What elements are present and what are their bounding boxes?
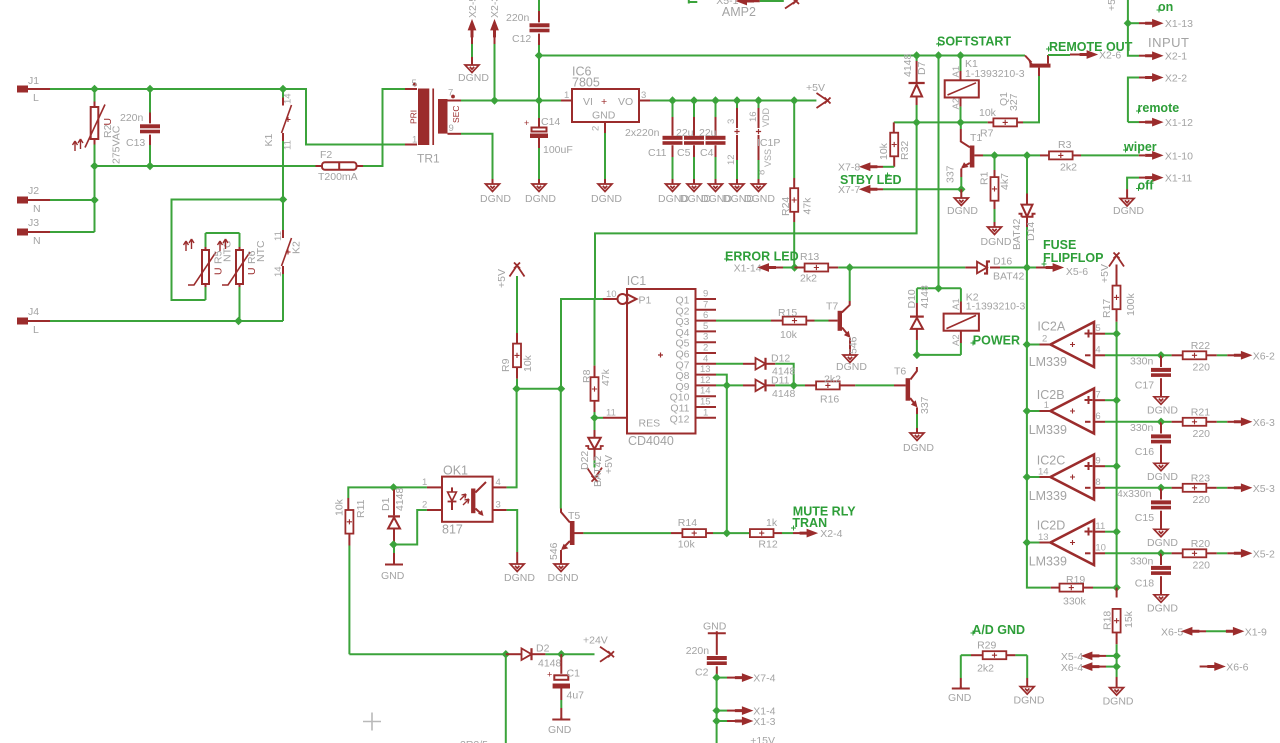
svg-text:327: 327	[1008, 93, 1020, 111]
wire mains N lower rail	[95, 165, 316, 167]
svg-text:T1: T1	[970, 132, 982, 144]
resistor R17 100k	[1101, 265, 1137, 334]
svg-text:C18: C18	[1135, 578, 1154, 590]
svg-text:R1: R1	[979, 171, 991, 185]
svg-text:5: 5	[703, 321, 708, 332]
svg-text:TR1: TR1	[417, 152, 440, 166]
svg-text:R23: R23	[1191, 473, 1210, 485]
capacitor C15 4x330n	[1117, 484, 1171, 530]
svg-text:VO: VO	[618, 96, 633, 108]
svg-text:3: 3	[703, 332, 708, 343]
svg-text:16: 16	[748, 111, 759, 122]
svg-text:off: off	[1138, 179, 1155, 193]
svg-text:7: 7	[448, 88, 453, 99]
svg-text:1: 1	[564, 90, 569, 101]
svg-text:2k2: 2k2	[1060, 162, 1077, 174]
svg-text:7: 7	[1095, 390, 1100, 401]
svg-text:4: 4	[496, 477, 501, 488]
svg-text:D16: D16	[993, 256, 1012, 268]
svg-text:RES: RES	[639, 418, 661, 430]
svg-text:2k2: 2k2	[977, 663, 994, 675]
svg-text:U: U	[246, 267, 258, 275]
svg-text:330n: 330n	[1130, 556, 1154, 568]
wire error row to D16	[850, 267, 966, 269]
diode D1 4148	[380, 487, 406, 544]
svg-text:C16: C16	[1135, 446, 1154, 458]
ground DGND (C14)	[532, 184, 546, 192]
svg-text:K1: K1	[263, 133, 275, 146]
svg-text:R21: R21	[1191, 407, 1210, 419]
svg-text:10k: 10k	[979, 107, 997, 119]
svg-text:X6-4: X6-4	[1061, 662, 1083, 674]
svg-text:C5: C5	[677, 147, 691, 159]
supply +24V arrow	[600, 647, 614, 662]
svg-text:X1-10: X1-10	[1165, 151, 1193, 163]
capacitor C14 100uF	[524, 101, 573, 185]
wire R11 to D2 row	[349, 653, 505, 655]
pin X5-3	[1234, 483, 1275, 495]
svg-text:VDD: VDD	[761, 107, 771, 127]
svg-text:4k7: 4k7	[999, 173, 1011, 190]
svg-text:10k: 10k	[522, 354, 534, 372]
capacitor C12 220n	[506, 0, 550, 101]
svg-text:11: 11	[283, 140, 294, 150]
svg-text:X2-4: X2-4	[820, 528, 842, 540]
svg-text:+24V: +24V	[583, 635, 608, 647]
svg-text:C1: C1	[567, 668, 581, 680]
pin X2-4	[793, 528, 843, 540]
svg-text:R13: R13	[800, 251, 819, 263]
capacitor C4	[706, 101, 726, 185]
svg-text:X5-6: X5-6	[1066, 266, 1088, 278]
svg-text:NTC: NTC	[255, 240, 267, 262]
svg-text:C11: C11	[648, 147, 667, 159]
resistor R7 10k	[979, 76, 1039, 140]
pin X5-4	[1061, 651, 1117, 663]
svg-text:D10: D10	[906, 289, 918, 308]
resistor R16 2k2	[794, 374, 906, 406]
svg-text:12: 12	[700, 375, 711, 386]
pin X7-7	[838, 184, 961, 196]
resistor R3 2k2	[1040, 139, 1139, 174]
pin X5-1 (cut)	[716, 0, 799, 9]
capacitor C5	[684, 101, 704, 185]
capacitor C1 4u7	[547, 654, 584, 719]
svg-text:T6: T6	[894, 366, 906, 378]
svg-text:IC2A: IC2A	[1037, 320, 1065, 334]
wire wiper row	[995, 154, 1041, 156]
svg-text:FUSE: FUSE	[1043, 238, 1076, 252]
fuse F2 T200mA	[316, 89, 406, 183]
resistor R29 2k2	[961, 640, 1027, 675]
IC IC1 CD4040	[603, 274, 716, 448]
svg-text:BAT42: BAT42	[1011, 219, 1023, 250]
wire NTC loop	[172, 200, 284, 301]
svg-text:GND: GND	[948, 692, 972, 704]
svg-text:+5V: +5V	[496, 269, 508, 288]
resistor R23 220	[1161, 473, 1235, 507]
svg-text:DGND: DGND	[548, 572, 579, 584]
svg-text:on: on	[1158, 0, 1173, 14]
svg-text:4148: 4148	[902, 53, 914, 77]
svg-text:7805: 7805	[572, 76, 600, 90]
svg-text:1-1393210-3: 1-1393210-3	[966, 301, 1026, 313]
svg-text:X1-13: X1-13	[1165, 18, 1193, 30]
svg-text:J1: J1	[28, 75, 39, 87]
power pins IC2P (3/12)	[726, 101, 740, 185]
svg-text:DGND: DGND	[836, 361, 867, 373]
resistor R20 220	[1161, 538, 1235, 572]
svg-text:DGND: DGND	[981, 236, 1012, 248]
ground DGND (OK1)	[510, 564, 524, 572]
svg-text:9: 9	[703, 289, 708, 300]
ground GND (D1)	[393, 545, 395, 554]
svg-text:X6-2: X6-2	[1253, 350, 1275, 362]
svg-text:546: 546	[548, 542, 560, 560]
svg-text:10k: 10k	[780, 329, 798, 341]
svg-text:220n: 220n	[686, 645, 710, 657]
wire D1 to OK1 pin2	[394, 510, 427, 545]
svg-text:IC2D: IC2D	[1037, 519, 1065, 533]
svg-text:J3: J3	[28, 217, 39, 229]
svg-text:DGND: DGND	[1113, 205, 1144, 217]
diode D16 BAT42	[965, 256, 1027, 283]
pin X7-8	[838, 162, 877, 174]
op-amp IC2B LM339	[1027, 388, 1161, 437]
svg-text:220n: 220n	[120, 112, 144, 124]
pin X6-5 to X1-9	[1161, 627, 1267, 639]
ground DGND (T5)	[560, 560, 562, 564]
svg-text:A1: A1	[951, 298, 962, 310]
svg-text:U: U	[102, 118, 114, 126]
svg-text:X1-3: X1-3	[753, 716, 775, 728]
svg-text:275VAC: 275VAC	[111, 125, 123, 164]
supply +5V arrow (R17)	[1109, 253, 1124, 267]
diode D22 BAT42 to +5V	[579, 418, 615, 487]
svg-text:X1-9: X1-9	[1245, 627, 1267, 639]
ground GND (C2)	[708, 631, 726, 633]
pin X2-6	[1048, 50, 1121, 62]
node C12 to softstart wire	[535, 51, 543, 59]
svg-text:A2: A2	[951, 334, 962, 346]
svg-text:R24: R24	[780, 197, 792, 216]
svg-text:+: +	[524, 118, 529, 128]
wire J4 to K2	[50, 320, 283, 322]
supply +5V arrow	[817, 93, 831, 108]
svg-text:PRI: PRI	[409, 110, 419, 124]
ground GND (R29)	[960, 655, 962, 678]
svg-text:4148: 4148	[919, 285, 931, 309]
pin X1-4	[717, 706, 776, 718]
svg-text:POWER: POWER	[973, 334, 1020, 348]
svg-text:4: 4	[1095, 345, 1100, 356]
capacitor C2 220n	[686, 633, 727, 678]
svg-text:6: 6	[703, 310, 708, 321]
svg-text:wiper: wiper	[1123, 140, 1157, 154]
relay contact K1	[263, 89, 294, 200]
svg-text:220: 220	[1193, 362, 1211, 374]
svg-text:2k2: 2k2	[800, 273, 817, 285]
ground DGND (off)	[1126, 189, 1128, 198]
svg-text:1k: 1k	[766, 517, 778, 529]
svg-text:+5V: +5V	[806, 82, 825, 94]
svg-text:4148: 4148	[772, 388, 796, 400]
svg-text:C4: C4	[700, 147, 714, 159]
ground DGND (T1)	[960, 189, 962, 198]
capacitor C16 330n	[1130, 418, 1171, 464]
svg-text:ERROR LED: ERROR LED	[725, 250, 799, 264]
svg-text:5: 5	[412, 78, 417, 89]
resistor R21 220	[1161, 407, 1235, 441]
svg-text:T7: T7	[826, 301, 838, 313]
wire softstart vertical to K2	[938, 56, 940, 289]
svg-text:LM339: LM339	[1029, 489, 1067, 503]
svg-text:J2: J2	[28, 185, 39, 197]
svg-text:Q12: Q12	[670, 413, 690, 425]
pin X6-2	[1234, 350, 1275, 362]
ground DGND (IC6)	[598, 184, 612, 192]
svg-text:337: 337	[945, 165, 957, 183]
wire R7 row	[894, 121, 988, 123]
resistor R1 4k7	[979, 155, 1012, 227]
svg-text:C2: C2	[695, 667, 709, 679]
svg-text:X2-6: X2-6	[1099, 50, 1121, 62]
connector J1 (L)	[17, 75, 50, 104]
svg-text:4148: 4148	[538, 658, 562, 670]
svg-text:11: 11	[273, 231, 284, 241]
svg-text:SOFTSTART: SOFTSTART	[937, 35, 1011, 49]
svg-text:5: 5	[1095, 323, 1100, 334]
svg-text:X7-8: X7-8	[838, 162, 860, 174]
svg-text:817: 817	[442, 523, 463, 537]
svg-text:OK1: OK1	[443, 464, 468, 478]
pin X6-4	[1061, 662, 1117, 674]
svg-text:2x220n: 2x220n	[625, 127, 660, 139]
svg-text:GND: GND	[703, 621, 727, 633]
wire R9 to IC1 clock	[517, 299, 603, 389]
svg-text:8: 8	[1095, 477, 1100, 488]
svg-text:GND: GND	[592, 110, 616, 122]
svg-text:GND: GND	[548, 724, 572, 736]
svg-text:R17: R17	[1101, 299, 1113, 318]
svg-text:X6-3: X6-3	[1253, 417, 1275, 429]
svg-text:T200mA: T200mA	[318, 171, 358, 183]
ground DGND (TR1)	[486, 184, 500, 192]
svg-text:K2: K2	[291, 241, 303, 254]
svg-text:D1: D1	[380, 497, 392, 511]
svg-text:A1: A1	[951, 66, 962, 78]
pin X1-10	[1139, 151, 1193, 163]
diode D12 4148	[716, 353, 796, 386]
diode D14 BAT42	[1011, 155, 1037, 267]
svg-text:DGND: DGND	[525, 193, 556, 205]
svg-text:A2: A2	[951, 98, 962, 110]
svg-text:2: 2	[591, 126, 602, 131]
wire OK1 pin3 to ground	[507, 510, 518, 552]
svg-text:14: 14	[700, 386, 711, 397]
svg-text:BAT42: BAT42	[993, 271, 1024, 283]
svg-text:220n: 220n	[506, 12, 530, 24]
ground DGND (R1)	[988, 227, 1002, 235]
svg-text:220: 220	[1193, 494, 1211, 506]
svg-text:IC2C: IC2C	[1037, 454, 1065, 468]
wire +5V rail	[650, 100, 816, 102]
pin X2-3 arrow up	[489, 0, 501, 101]
svg-text:R19: R19	[1066, 574, 1085, 586]
pin X1-11	[1127, 173, 1192, 190]
svg-text:R29: R29	[977, 640, 996, 652]
pin X2-1	[1128, 23, 1187, 63]
svg-text:+5V: +5V	[1106, 0, 1118, 11]
resistor R15 10k	[716, 307, 829, 341]
diode D10 4148	[906, 285, 931, 355]
pin X6-3	[1234, 417, 1275, 429]
wire TR1 sec top to regulator	[461, 100, 561, 102]
svg-text:9: 9	[449, 123, 454, 134]
svg-text:1-1393210-3: 1-1393210-3	[965, 68, 1025, 80]
varistor R2 275VAC	[73, 89, 123, 166]
svg-text:4: 4	[703, 353, 708, 364]
pin X6-6	[1200, 662, 1249, 674]
svg-text:11: 11	[1095, 521, 1105, 532]
svg-text:+5V: +5V	[1099, 264, 1111, 283]
wire OK1 pin4 to R9	[507, 389, 517, 488]
svg-text:X2-2: X2-2	[1165, 73, 1187, 85]
thermistor R6 NTC	[218, 233, 268, 321]
svg-text:220: 220	[1193, 428, 1211, 440]
wire comparator plus rail	[1116, 334, 1118, 588]
svg-text:47k: 47k	[802, 197, 814, 215]
supply +5V arrow (R9)	[510, 263, 525, 277]
op-amp IC2C LM339	[1027, 454, 1161, 504]
svg-text:LM339: LM339	[1029, 423, 1067, 437]
svg-text:22u: 22u	[699, 127, 717, 139]
svg-text:DGND: DGND	[1147, 471, 1178, 483]
svg-text:3: 3	[496, 500, 501, 511]
resistor R19 330k	[1051, 574, 1117, 608]
capacitor C18 330n	[1130, 549, 1171, 595]
svg-text:R11: R11	[355, 499, 367, 518]
svg-text:DGND: DGND	[458, 72, 489, 84]
svg-text:R18: R18	[1102, 611, 1114, 630]
voltage regulator IC6 7805	[561, 65, 650, 134]
resistor R11 10k	[334, 498, 368, 654]
pin X2-2	[1128, 73, 1187, 123]
svg-text:DGND: DGND	[591, 193, 622, 205]
wire Q8 drop	[716, 375, 727, 386]
wire down to 2R2/5 (cut)	[505, 654, 507, 743]
svg-text:+: +	[601, 96, 607, 108]
svg-text:10k: 10k	[334, 498, 346, 516]
svg-text:R20: R20	[1191, 538, 1210, 550]
svg-text:15: 15	[700, 397, 711, 408]
svg-text:X7-4: X7-4	[753, 673, 775, 685]
svg-text:R32: R32	[899, 141, 911, 160]
pin X5-6	[1027, 264, 1088, 278]
svg-text:X1-14: X1-14	[734, 263, 762, 275]
svg-text:2: 2	[422, 500, 427, 511]
svg-text:X5-3: X5-3	[1253, 483, 1275, 495]
svg-text:remote: remote	[1138, 101, 1180, 115]
svg-text:L: L	[33, 324, 39, 336]
diode D2 4148	[506, 643, 595, 670]
optocoupler OK1 817	[422, 464, 507, 537]
svg-text:100k: 100k	[1125, 292, 1137, 316]
resistor R13 2k2	[795, 251, 850, 285]
pin X5-2	[1234, 548, 1275, 560]
svg-text:2: 2	[703, 343, 708, 354]
pin X1-13	[1124, 18, 1193, 30]
svg-text:VSS: VSS	[763, 149, 773, 167]
svg-text:2R2/5: 2R2/5	[460, 739, 488, 743]
svg-text:U: U	[213, 267, 225, 275]
svg-text:13: 13	[1038, 532, 1049, 543]
wire D7 down long to error logic	[595, 122, 917, 299]
svg-text:1: 1	[703, 407, 708, 418]
svg-text:INPUT: INPUT	[1148, 35, 1190, 50]
svg-text:DGND: DGND	[1147, 537, 1178, 549]
svg-text:13: 13	[700, 364, 711, 375]
resistor R24 47k	[780, 101, 814, 268]
svg-text:R12: R12	[758, 539, 777, 551]
svg-text:R3: R3	[1058, 139, 1072, 151]
svg-text:47k: 47k	[600, 368, 612, 386]
svg-text:4u7: 4u7	[567, 689, 585, 701]
svg-text:X6-5: X6-5	[1161, 627, 1183, 639]
svg-text:1: 1	[1044, 400, 1049, 411]
svg-text:N: N	[33, 235, 41, 247]
connector J4 (L)	[17, 306, 50, 336]
resistor R14 10k	[671, 517, 750, 551]
node softstart junctions	[912, 51, 920, 59]
pin X1-12	[1128, 117, 1193, 129]
svg-text:A/D GND: A/D GND	[972, 623, 1025, 637]
svg-text:15k: 15k	[1123, 610, 1135, 628]
ground GND (C1)	[552, 718, 570, 720]
svg-text:+5V: +5V	[603, 455, 615, 474]
svg-text:X1-11: X1-11	[1165, 173, 1192, 185]
svg-text:10k: 10k	[878, 142, 890, 160]
svg-text:DGND: DGND	[947, 205, 978, 217]
svg-text:DGND: DGND	[903, 442, 934, 454]
svg-text:CD4040: CD4040	[628, 434, 674, 448]
wire N vertical	[94, 166, 96, 232]
transistor T1 337	[945, 122, 995, 189]
resistor R8 47k	[581, 299, 612, 418]
wire fragment top (cut)	[689, 0, 698, 4]
transistor T7 546	[826, 268, 860, 356]
svg-text:DGND: DGND	[1147, 603, 1178, 615]
svg-text:LM339: LM339	[1029, 555, 1067, 569]
svg-text:R15: R15	[778, 307, 797, 319]
svg-text:T5: T5	[568, 510, 580, 522]
svg-text:VI: VI	[583, 96, 593, 108]
svg-text:R8: R8	[581, 369, 593, 383]
svg-text:220: 220	[1193, 560, 1211, 572]
svg-text:C13: C13	[126, 137, 145, 149]
connector J3 (N)	[17, 217, 95, 247]
svg-text:J4: J4	[28, 306, 39, 318]
svg-text:DGND: DGND	[1014, 695, 1045, 707]
ground DGND (R18)	[1116, 677, 1118, 688]
wire C2 column	[716, 678, 718, 743]
diode D11 4148	[716, 375, 796, 401]
wire comparator rail	[1027, 268, 1051, 588]
wire T5 collector up	[560, 389, 562, 509]
svg-text:D12: D12	[771, 353, 790, 365]
svg-text:C14: C14	[541, 116, 560, 128]
svg-text:337: 337	[919, 396, 931, 414]
